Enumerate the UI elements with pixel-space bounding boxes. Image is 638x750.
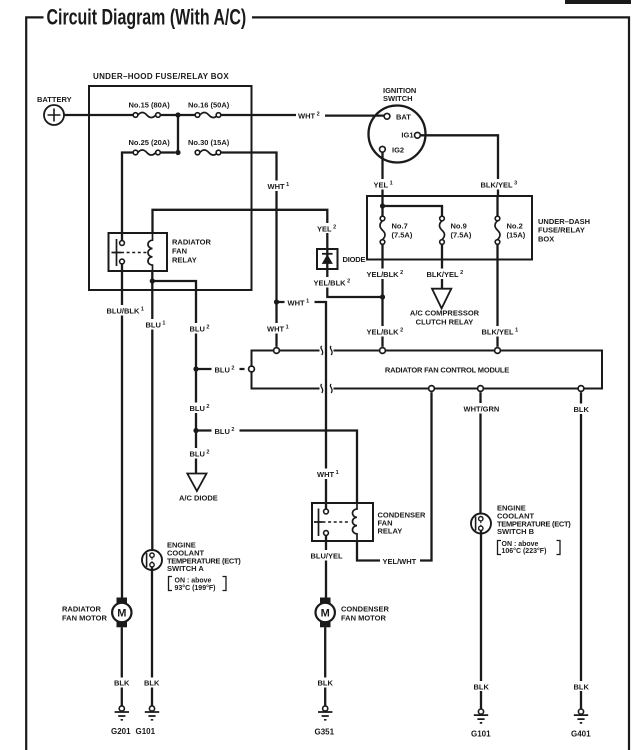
wire fuse7 down to module (YEL/BLK 2)	[381, 244, 383, 346]
relay terminals	[120, 241, 125, 246]
svg-text:BLK: BLK	[144, 679, 160, 688]
svg-text:BLK: BLK	[574, 405, 590, 414]
svg-text:SWITCH B: SWITCH B	[497, 527, 535, 536]
wire junction row1 to row2	[177, 115, 179, 153]
condenser fan motor	[316, 598, 335, 628]
junction node row2	[175, 150, 180, 155]
fuse No.15 (80A)	[133, 113, 160, 118]
terminal BAT	[384, 113, 390, 119]
svg-text:(15A): (15A)	[507, 230, 526, 239]
ECT switch A body	[142, 550, 162, 570]
relay contact blade	[112, 239, 122, 266]
A/C diode connector triangle	[187, 474, 206, 492]
svg-text:BLU/BLK1: BLU/BLK1	[107, 307, 144, 316]
wire label WHT 1 (lower)	[265, 323, 296, 334]
svg-text:No.9: No.9	[451, 222, 467, 231]
module edge break marks	[321, 346, 332, 393]
wire label BLU/BLK 1	[104, 305, 148, 316]
fuse No.2 (15A)	[495, 216, 500, 244]
ignition switch body	[369, 106, 426, 163]
svg-text:No.30 (15A): No.30 (15A)	[188, 138, 230, 147]
ground G201	[115, 706, 129, 720]
svg-text:DIODE: DIODE	[343, 255, 366, 264]
wire YEL1 into box to fuse7	[381, 196, 383, 216]
wire label YEL 1	[371, 179, 400, 190]
node BLU2 to module	[193, 366, 198, 371]
wire fuse16 to WHT2 label	[221, 114, 296, 116]
svg-text:BAT: BAT	[396, 113, 411, 122]
wire label BLU 2 (first)	[186, 323, 214, 334]
svg-text:BLK: BLK	[574, 683, 590, 692]
svg-text:RELAY: RELAY	[172, 256, 197, 265]
wire fuse2 down to module (BLK/YEL 1)	[496, 244, 498, 346]
relay terminals	[324, 509, 329, 514]
svg-text:No.25 (20A): No.25 (20A)	[129, 138, 171, 147]
wire label YEL/WHT	[380, 556, 420, 567]
wire label BLU 2 (above A/C diode)	[186, 448, 214, 459]
node coil bottom junction	[150, 278, 155, 283]
UNDER-HOOD FUSE/RELAY BOX	[89, 86, 252, 290]
svg-text:G201: G201	[111, 727, 131, 736]
wire WHT1 net: fuse30 right, down to control module terminal	[221, 153, 277, 347]
svg-text:YEL/BLK2: YEL/BLK2	[367, 270, 404, 279]
wire BLU/YEL: relay to condenser fan motor	[325, 535, 327, 597]
wire ECT B to ground	[480, 530, 482, 709]
svg-text:FUSE/RELAY: FUSE/RELAY	[538, 226, 585, 235]
svg-text:A/C DIODE: A/C DIODE	[179, 494, 218, 503]
svg-text:No.16 (50A): No.16 (50A)	[188, 100, 230, 109]
svg-text:(7.5A): (7.5A)	[392, 230, 413, 239]
svg-text:G101: G101	[136, 727, 156, 736]
svg-text:Circuit Diagram (With A/C): Circuit Diagram (With A/C)	[47, 5, 247, 30]
terminal IG1	[415, 132, 421, 138]
wire BLK/YEL3 into box to fuse2	[496, 196, 498, 216]
ECT B note brackets	[498, 541, 561, 555]
svg-text:FAN MOTOR: FAN MOTOR	[62, 614, 107, 623]
wire label BLK	[315, 678, 336, 688]
svg-text:BLK: BLK	[114, 679, 130, 688]
wire label WHT/GRN	[461, 403, 502, 414]
module terminals top	[274, 348, 280, 354]
ECT A note brackets	[169, 577, 227, 591]
wire BLU2 stub into module left terminal	[196, 368, 245, 370]
node diode junction	[380, 294, 385, 299]
wire label YEL 2	[315, 223, 340, 233]
wire BLU 2 riser	[152, 281, 196, 474]
fuse No.9 (7.5A)	[440, 216, 445, 244]
wire WHT branch to condenser relay column	[277, 302, 327, 509]
svg-text:BATTERY: BATTERY	[37, 95, 72, 104]
svg-text:No.2: No.2	[507, 222, 523, 231]
svg-text:No.7: No.7	[392, 222, 408, 231]
svg-text:CLUTCH RELAY: CLUTCH RELAY	[416, 318, 474, 327]
wire motor to ground	[121, 627, 123, 706]
svg-text:CONDENSER: CONDENSER	[341, 605, 390, 614]
svg-text:IG1: IG1	[401, 131, 413, 140]
wire IG1 to BLK/YEL3	[420, 135, 498, 196]
fuse No.7 (7.5A)	[380, 216, 385, 244]
wire label BLU 2 (second)	[186, 403, 214, 414]
page frame: title bracket and left border	[26, 17, 43, 750]
svg-text:FAN: FAN	[172, 247, 187, 256]
svg-text:BOX: BOX	[538, 234, 554, 243]
svg-text:No.15 (80A): No.15 (80A)	[129, 100, 171, 109]
svg-text:WHT/GRN: WHT/GRN	[464, 405, 500, 414]
wire label YEL/BLK 2 (lower)	[364, 326, 407, 337]
ground G101 (right)	[474, 709, 488, 723]
svg-text:BLK/YEL1: BLK/YEL1	[482, 328, 519, 337]
diode D (in box)	[317, 249, 338, 269]
wire label BLK	[111, 678, 132, 688]
wire label BLU 1	[142, 319, 170, 330]
title rule to right border and right border	[252, 17, 629, 750]
radiator fan motor	[112, 598, 131, 628]
wire label BLU 2 (branch)	[212, 426, 240, 437]
wire label BLK (G401)	[571, 681, 593, 691]
decorative black bar top right	[565, 0, 631, 4]
svg-text:RADIATOR: RADIATOR	[172, 238, 211, 247]
module terminals bottom	[429, 386, 435, 392]
svg-text:A/C COMPRESSOR: A/C COMPRESSOR	[410, 309, 480, 318]
wire IG2 to YEL1	[381, 152, 383, 196]
svg-text:UNDER–DASH: UNDER–DASH	[538, 217, 590, 226]
wire BLK: module to G401	[580, 392, 582, 709]
wire WHT2 to ignition BAT	[325, 114, 384, 116]
wire branch to fuse No.9	[383, 206, 443, 216]
module box (edges broken at WHT crossing)	[252, 351, 603, 389]
node WHT branch junction	[274, 299, 279, 304]
wire BLU/BLK 1: relay to radiator fan motor	[121, 264, 123, 598]
svg-text:M: M	[321, 608, 330, 620]
svg-text:G101: G101	[471, 730, 491, 739]
svg-text:YEL/BLK2: YEL/BLK2	[314, 279, 351, 288]
wire fuse15 to junction	[160, 114, 195, 116]
wire label WHT 1 (at branch)	[285, 297, 315, 308]
wire label BLK	[141, 678, 162, 688]
fuse No.16 (50A)	[195, 113, 221, 118]
svg-text:YEL/BLK2: YEL/BLK2	[367, 328, 404, 337]
svg-text:106°C (223°F): 106°C (223°F)	[502, 547, 547, 555]
wire BLU 1: relay coil to ECT switch A	[151, 271, 153, 553]
svg-text:93°C (199°F): 93°C (199°F)	[175, 584, 216, 592]
svg-text:SWITCH A: SWITCH A	[167, 564, 204, 573]
svg-text:FAN MOTOR: FAN MOTOR	[341, 614, 386, 623]
wire ECT A to ground	[151, 567, 153, 706]
ground G101 (left)	[145, 706, 159, 720]
wire WHT/GRN: module to ECT switch B	[479, 392, 481, 516]
svg-text:M: M	[117, 608, 126, 620]
radiator fan relay box	[109, 233, 168, 271]
relay coil	[352, 503, 357, 541]
svg-text:ON : above: ON : above	[502, 541, 539, 548]
wire label YEL/BLK 2 (upper)	[364, 269, 407, 280]
terminal IG2	[380, 146, 386, 152]
wire BLU2 branch to condenser fan relay coil	[196, 431, 357, 504]
wire motor to ground	[324, 627, 326, 706]
condenser fan relay box	[312, 503, 373, 541]
wire fuse25 left down to relay terminal	[122, 153, 133, 241]
wire fuse9 down to A/C compressor clutch relay (BLK/YEL 2)	[441, 244, 443, 288]
svg-text:G351: G351	[315, 728, 335, 737]
wire label WHT 1 (upper)	[265, 181, 296, 192]
relay coil	[148, 233, 153, 271]
wire relay coil top to diode (YEL 2)	[153, 210, 383, 297]
ECT switch B body	[471, 514, 491, 534]
module terminal left	[249, 366, 255, 372]
wire label BLK (module)	[571, 404, 593, 415]
wire label BLK/YEL 2	[424, 269, 467, 280]
svg-text:RADIATOR: RADIATOR	[62, 605, 101, 614]
fuse No.25 (20A)	[133, 150, 160, 155]
wire fuse25 right to junction	[160, 151, 175, 153]
relay contact blade	[314, 509, 323, 537]
wire YEL/WHT: coil bottom to module	[357, 392, 432, 560]
wire label WHT 1 (above condenser fan relay)	[315, 469, 346, 480]
node BLU2 to condenser relay coil	[193, 428, 198, 433]
svg-text:G401: G401	[571, 730, 591, 739]
wire battery to fuse No.15	[64, 114, 133, 116]
svg-text:IG2: IG2	[392, 145, 404, 154]
svg-text:BLK/YEL3: BLK/YEL3	[481, 181, 518, 190]
battery	[44, 105, 64, 125]
svg-text:YEL/WHT: YEL/WHT	[383, 557, 417, 566]
ground G351	[318, 706, 332, 720]
svg-text:RELAY: RELAY	[378, 527, 403, 536]
wire label BLK/YEL 3	[478, 179, 521, 190]
svg-text:BLK: BLK	[474, 683, 490, 692]
ground G401	[574, 709, 588, 723]
wire label BLK/YEL 1	[479, 326, 522, 337]
svg-text:BLK/YEL2: BLK/YEL2	[427, 270, 464, 279]
relay dashed link	[121, 252, 147, 254]
wire label YEL/BLK 2 (left of diode)	[311, 277, 353, 288]
svg-text:UNDER–HOOD FUSE/RELAY BOX: UNDER–HOOD FUSE/RELAY BOX	[93, 72, 229, 81]
svg-text:BLK: BLK	[318, 679, 334, 688]
wire label BLU/YEL	[308, 550, 344, 561]
junction node row1	[175, 112, 180, 117]
node YEL1 branch	[380, 203, 385, 208]
relay dashed link	[323, 521, 351, 523]
svg-text:(7.5A): (7.5A)	[451, 230, 472, 239]
svg-text:BLU/YEL: BLU/YEL	[311, 552, 344, 561]
svg-text:RADIATOR FAN CONTROL MODULE: RADIATOR FAN CONTROL MODULE	[385, 366, 509, 375]
wire label BLU 2 (stub)	[212, 364, 240, 375]
wire label BLK	[470, 681, 492, 691]
fuse No.30 (15A)	[195, 150, 221, 155]
svg-text:SWITCH: SWITCH	[383, 94, 413, 103]
A/C compressor clutch relay connector triangle	[432, 289, 451, 309]
svg-text:ON : above: ON : above	[175, 578, 212, 585]
